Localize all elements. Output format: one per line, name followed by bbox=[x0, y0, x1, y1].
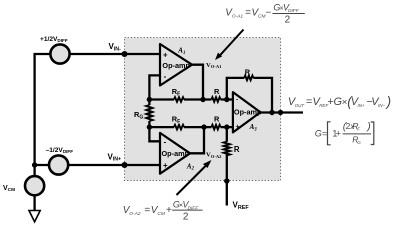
svg-text:G: G bbox=[315, 129, 322, 139]
svg-text:IN−: IN− bbox=[378, 103, 386, 108]
svg-text:CM: CM bbox=[157, 211, 164, 217]
svg-text:Op-amp: Op-amp bbox=[234, 108, 262, 117]
svg-text:=: = bbox=[245, 8, 251, 19]
svg-text:IN+: IN+ bbox=[358, 103, 366, 108]
svg-text:=: = bbox=[322, 129, 327, 139]
svg-text:-: - bbox=[236, 96, 238, 103]
svg-text:-: - bbox=[164, 72, 167, 81]
svg-text:+: + bbox=[236, 123, 240, 130]
svg-text:-: - bbox=[164, 138, 167, 147]
svg-text:O-A1: O-A1 bbox=[232, 14, 244, 20]
svg-text:R: R bbox=[214, 87, 220, 96]
svg-text:2: 2 bbox=[285, 14, 291, 25]
svg-text:+: + bbox=[166, 205, 172, 216]
svg-text:+1/2VDIFF: +1/2VDIFF bbox=[40, 36, 68, 43]
svg-text:O-A2: O-A2 bbox=[129, 211, 141, 217]
svg-text:=: = bbox=[144, 205, 150, 216]
svg-text:R: R bbox=[214, 115, 220, 124]
svg-text:–1/2VDIFF: –1/2VDIFF bbox=[46, 147, 74, 154]
svg-text:2: 2 bbox=[183, 212, 189, 223]
svg-text:G: G bbox=[357, 140, 361, 145]
svg-text:Op-amp: Op-amp bbox=[162, 61, 190, 70]
svg-text:R: R bbox=[234, 145, 240, 154]
svg-text:F: F bbox=[357, 126, 360, 131]
svg-text:+: + bbox=[163, 161, 168, 170]
svg-text:Op-amp: Op-amp bbox=[162, 149, 190, 158]
svg-text:+: + bbox=[336, 129, 341, 139]
svg-text:+: + bbox=[163, 50, 168, 59]
svg-text:OUT: OUT bbox=[295, 103, 306, 108]
svg-text:R: R bbox=[245, 68, 251, 77]
svg-text:−: − bbox=[265, 8, 271, 19]
